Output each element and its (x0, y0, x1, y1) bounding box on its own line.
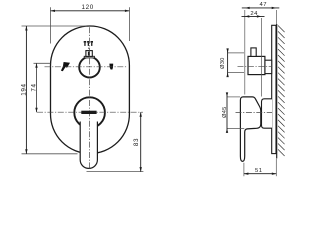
dimension D45 arrows (226, 92, 228, 97)
dimension 74 line (36, 63, 38, 112)
dimension 120 arrows (51, 10, 56, 12)
dimension D45 line (226, 93, 228, 132)
dimension 194 extension lines (22, 25, 87, 27)
svg-text:24: 24 (250, 11, 258, 17)
dimension 120 line (51, 10, 130, 12)
spray symbol above button (84, 41, 93, 46)
wall hatching (278, 26, 285, 157)
horizontal centerline through lever pivot (37, 111, 143, 113)
dimension 83 line (140, 112, 142, 171)
dimension 120 extension lines (50, 7, 52, 43)
dimension 24 arrows (245, 15, 250, 17)
dimension 74 extension line top (34, 62, 51, 64)
svg-text:51: 51 (255, 168, 263, 174)
lever pivot dark bar (81, 111, 96, 114)
diverter button side (251, 48, 256, 57)
vertical centerline front view (88, 27, 90, 170)
cartridge circle (79, 57, 100, 78)
svg-text:Ø30: Ø30 (220, 57, 226, 68)
lever dome side (262, 99, 273, 128)
svg-text:83: 83 (133, 138, 140, 146)
dimension 83 extension line bottom (87, 171, 144, 173)
diverter button inner mark (88, 52, 90, 56)
wall top extension (276, 10, 278, 24)
dimension 24 line (242, 15, 265, 17)
horizontal centerline through cartridge (45, 66, 128, 68)
svg-text:74: 74 (31, 83, 38, 91)
lever handle side profile (240, 97, 260, 161)
dimension 51 line (244, 173, 276, 175)
svg-text:194: 194 (21, 83, 28, 95)
dimension 83 arrows (140, 112, 142, 117)
dimension 194 arrows (25, 26, 27, 31)
dimension 47 extension line left (244, 10, 246, 95)
escutcheon neck (265, 60, 272, 73)
wall line (276, 24, 278, 158)
dimension D30 extension lines (228, 52, 244, 54)
cover plate outline (51, 26, 130, 154)
dimension 51 extension lines (243, 163, 245, 177)
dimension 51 arrows (244, 173, 249, 175)
dimension D45 extension lines (227, 96, 240, 98)
dimension 24 extension line right (260, 18, 262, 97)
side centerline cartridge (238, 65, 273, 67)
dimension D30 line (227, 49, 229, 77)
dimension 47 arrows (245, 7, 250, 9)
cold symbol right of cartridge (109, 64, 113, 70)
diverter button (86, 51, 92, 57)
centerline dot above button (88, 48, 89, 49)
lever handle shaft (80, 122, 97, 169)
hot symbol left of cartridge (61, 62, 70, 71)
dimension 74 arrows (35, 63, 37, 68)
dimension D30 arrows (226, 48, 228, 53)
dimension 47 line (242, 7, 279, 9)
dimension 194 line (25, 26, 27, 154)
plate side profile (272, 25, 276, 153)
side centerline lever pivot (236, 112, 273, 114)
svg-text:Ø45: Ø45 (222, 106, 228, 117)
svg-text:47: 47 (260, 2, 268, 8)
diverter button base flange (84, 56, 94, 58)
lever pivot circle (74, 97, 105, 128)
svg-text:120: 120 (82, 4, 94, 11)
valve body side (248, 56, 265, 74)
